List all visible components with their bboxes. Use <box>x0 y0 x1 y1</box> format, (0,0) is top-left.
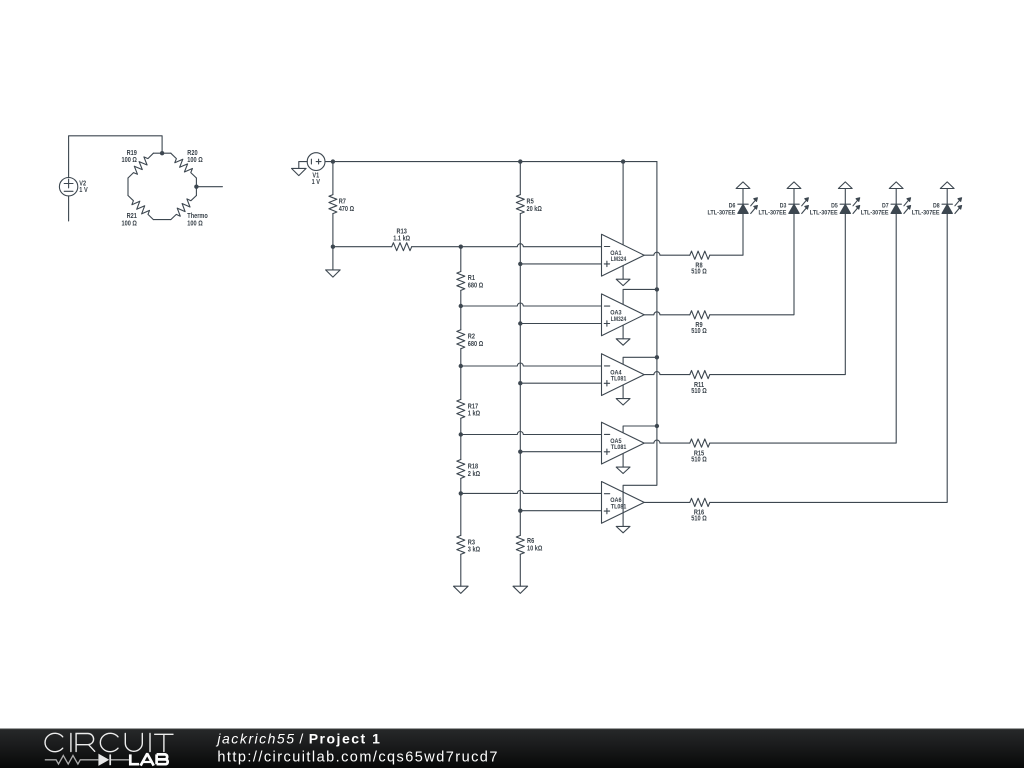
svg-text:20 kΩ: 20 kΩ <box>527 206 543 213</box>
svg-text:2 kΩ: 2 kΩ <box>468 471 481 478</box>
svg-text:R21: R21 <box>127 213 137 220</box>
svg-text:TL081: TL081 <box>611 444 627 451</box>
svg-text:D7: D7 <box>882 202 889 209</box>
svg-text:470 Ω: 470 Ω <box>339 206 355 213</box>
svg-text:R3: R3 <box>468 539 475 546</box>
svg-text:680 Ω: 680 Ω <box>468 341 484 348</box>
svg-text:1.1 kΩ: 1.1 kΩ <box>393 235 410 242</box>
svg-text:TL081: TL081 <box>611 503 627 510</box>
svg-text:510 Ω: 510 Ω <box>691 269 707 276</box>
svg-text:10 kΩ: 10 kΩ <box>527 546 543 553</box>
svg-text:510 Ω: 510 Ω <box>691 456 707 463</box>
svg-text:1 V: 1 V <box>79 187 88 194</box>
svg-text:D8: D8 <box>933 202 940 209</box>
svg-text:100 Ω: 100 Ω <box>122 221 138 228</box>
svg-text:680 Ω: 680 Ω <box>468 282 484 289</box>
svg-text:R6: R6 <box>527 538 534 545</box>
svg-text:R1: R1 <box>468 275 475 282</box>
svg-text:100 Ω: 100 Ω <box>122 157 138 164</box>
svg-text:D5: D5 <box>831 202 838 209</box>
svg-text:R2: R2 <box>468 334 475 341</box>
svg-text:LM324: LM324 <box>611 316 627 323</box>
svg-text:D3: D3 <box>780 202 787 209</box>
svg-text:LTL-307EE: LTL-307EE <box>861 210 889 217</box>
svg-text:510 Ω: 510 Ω <box>691 516 707 523</box>
svg-text:TL081: TL081 <box>611 376 627 383</box>
svg-text:LTL-307EE: LTL-307EE <box>759 210 787 217</box>
svg-text:http://circuitlab.com/cqs65wd7: http://circuitlab.com/cqs65wd7rucd7 <box>217 750 497 766</box>
svg-text:1 V: 1 V <box>312 179 321 186</box>
svg-text:3 kΩ: 3 kΩ <box>468 547 481 554</box>
svg-text:R18: R18 <box>468 463 478 470</box>
svg-text:/: / <box>299 731 304 747</box>
svg-text:100 Ω: 100 Ω <box>187 157 203 164</box>
svg-text:D6: D6 <box>729 202 736 209</box>
svg-text:R17: R17 <box>468 403 478 410</box>
svg-text:100 Ω: 100 Ω <box>187 221 203 228</box>
svg-text:R7: R7 <box>339 198 346 205</box>
svg-text:1 kΩ: 1 kΩ <box>468 411 481 418</box>
svg-text:LM324: LM324 <box>611 256 627 263</box>
svg-text:510 Ω: 510 Ω <box>691 328 707 335</box>
svg-text:510 Ω: 510 Ω <box>691 388 707 395</box>
svg-text:LTL-307EE: LTL-307EE <box>810 210 838 217</box>
svg-text:LTL-307EE: LTL-307EE <box>708 210 736 217</box>
svg-text:R5: R5 <box>527 198 534 205</box>
svg-text:Thermo: Thermo <box>187 213 208 220</box>
svg-text:Project 1: Project 1 <box>309 731 382 747</box>
svg-text:jackrich55: jackrich55 <box>215 731 295 747</box>
svg-text:LTL-307EE: LTL-307EE <box>912 210 940 217</box>
